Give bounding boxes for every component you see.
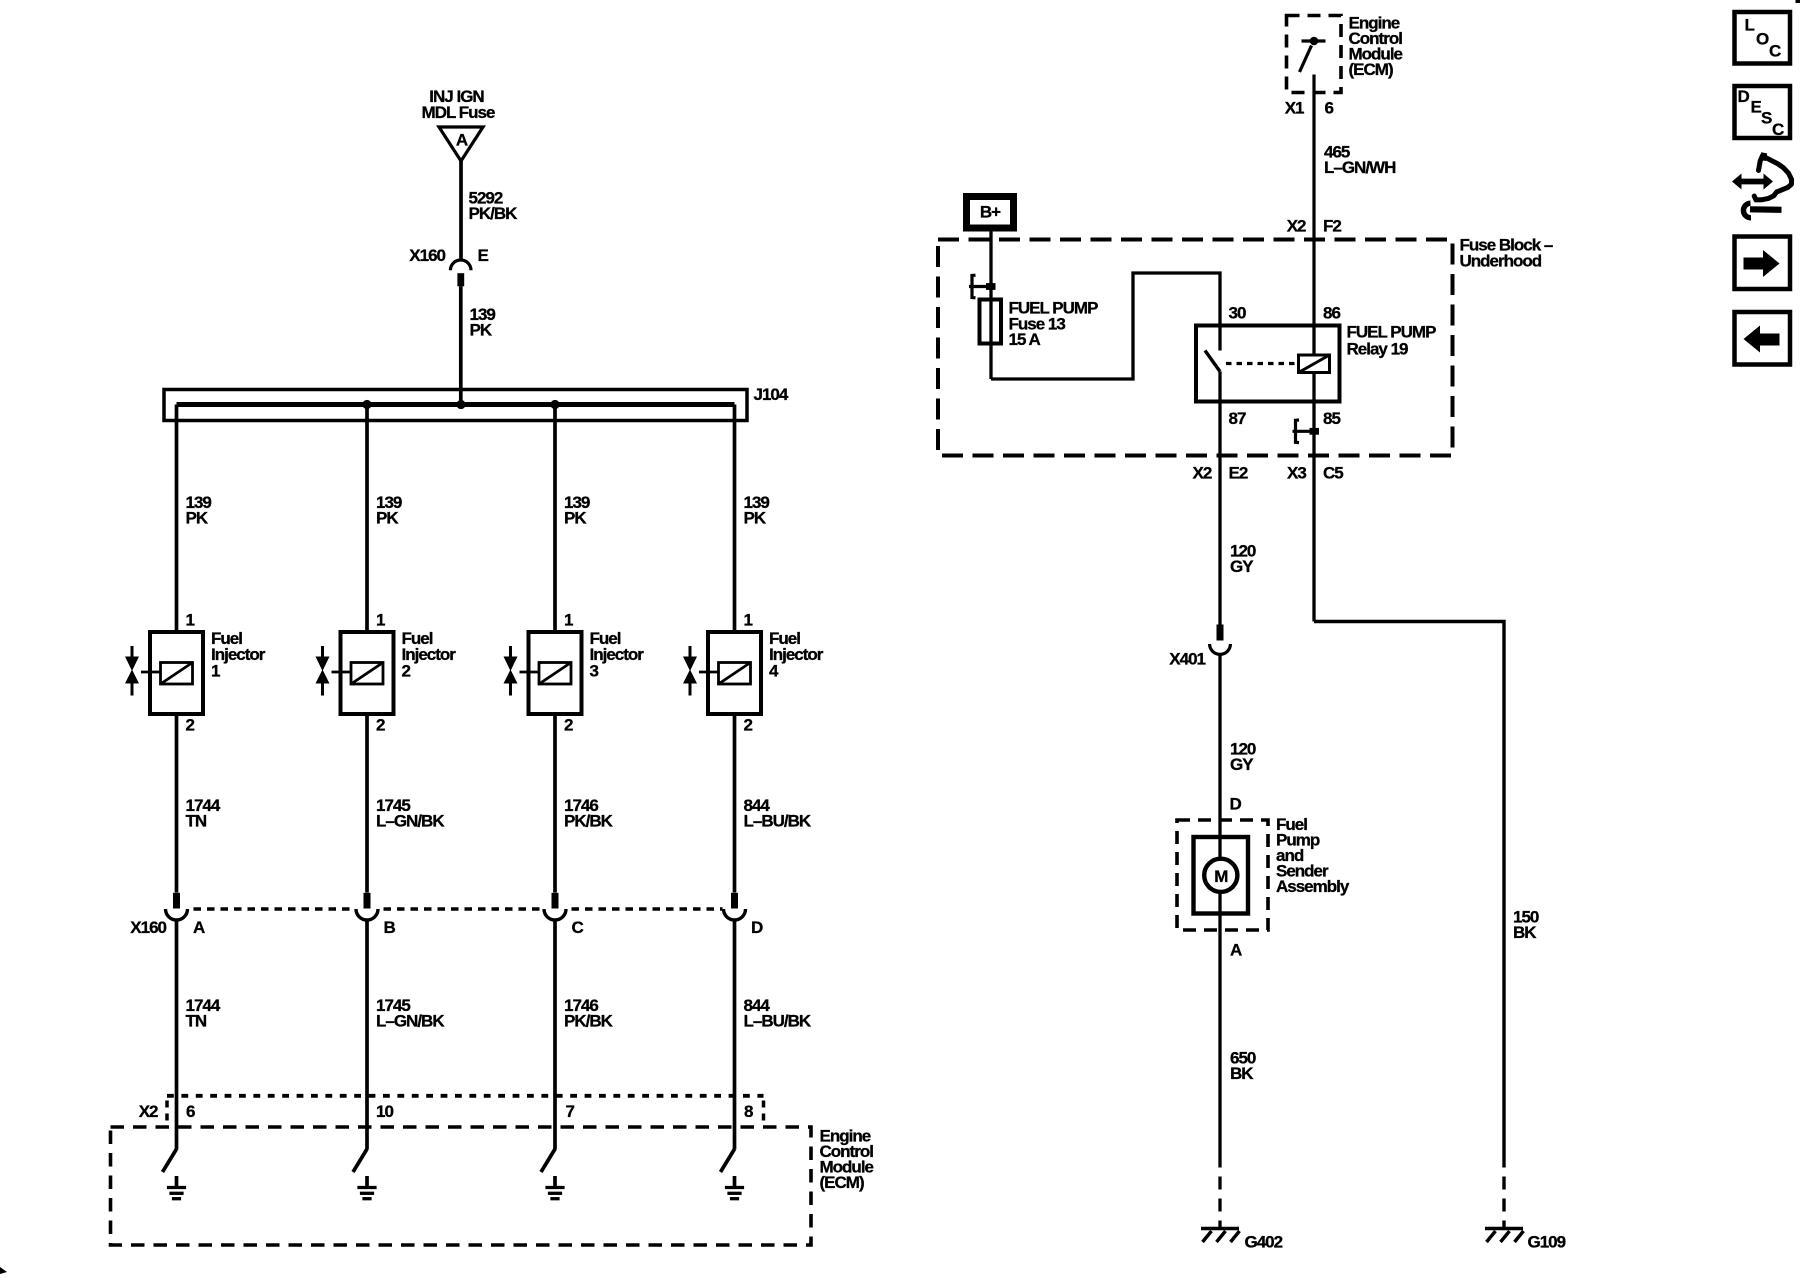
- svg-text:8: 8: [744, 1102, 753, 1121]
- svg-text:PK: PK: [376, 509, 399, 528]
- svg-text:Assembly: Assembly: [1276, 877, 1350, 896]
- svg-text:3: 3: [590, 662, 599, 681]
- svg-text:1: 1: [186, 611, 195, 630]
- svg-text:B+: B+: [980, 203, 1001, 222]
- svg-text:87: 87: [1229, 409, 1246, 428]
- svg-text:PK/BK: PK/BK: [564, 812, 614, 831]
- svg-text:6: 6: [1325, 99, 1334, 118]
- svg-text:86: 86: [1323, 304, 1340, 323]
- svg-text:A: A: [193, 918, 205, 937]
- svg-text:G402: G402: [1245, 1233, 1283, 1252]
- svg-text:B: B: [384, 918, 396, 937]
- svg-text:X1: X1: [1285, 99, 1304, 118]
- svg-text:E: E: [478, 246, 489, 265]
- svg-text:TN: TN: [186, 1012, 207, 1031]
- svg-text:C: C: [1772, 120, 1784, 139]
- svg-text:L–GN/BK: L–GN/BK: [376, 1012, 445, 1031]
- svg-text:S: S: [1761, 108, 1772, 127]
- svg-text:GY: GY: [1230, 557, 1254, 576]
- svg-text:MDL Fuse: MDL Fuse: [422, 103, 495, 122]
- svg-text:F2: F2: [1323, 217, 1341, 236]
- svg-text:2: 2: [744, 716, 753, 735]
- svg-text:L–BU/BK: L–BU/BK: [744, 1012, 812, 1031]
- svg-text:A: A: [456, 131, 468, 150]
- svg-text:30: 30: [1229, 304, 1246, 323]
- svg-text:X2: X2: [139, 1102, 158, 1121]
- svg-text:X2: X2: [1193, 464, 1212, 483]
- svg-text:2: 2: [402, 662, 411, 681]
- svg-text:D: D: [1738, 87, 1750, 106]
- svg-text:A: A: [1230, 941, 1242, 960]
- svg-text:X2: X2: [1287, 217, 1306, 236]
- svg-text:1: 1: [211, 662, 220, 681]
- svg-text:(ECM): (ECM): [820, 1173, 864, 1192]
- svg-text:C: C: [572, 918, 584, 937]
- svg-text:TN: TN: [186, 812, 207, 831]
- svg-text:X401: X401: [1169, 650, 1205, 669]
- svg-text:1: 1: [564, 611, 573, 630]
- svg-text:PK: PK: [564, 509, 587, 528]
- svg-text:X3: X3: [1287, 464, 1306, 483]
- svg-text:E: E: [1751, 98, 1762, 117]
- svg-text:X160: X160: [130, 918, 166, 937]
- svg-text:7: 7: [566, 1102, 575, 1121]
- svg-text:G109: G109: [1528, 1233, 1566, 1252]
- svg-text:PK: PK: [186, 509, 209, 528]
- svg-text:2: 2: [564, 716, 573, 735]
- svg-text:Relay 19: Relay 19: [1347, 340, 1409, 359]
- svg-text:C: C: [1769, 42, 1781, 61]
- svg-text:2: 2: [376, 716, 385, 735]
- svg-text:15 A: 15 A: [1009, 330, 1041, 349]
- svg-text:PK: PK: [744, 509, 767, 528]
- svg-text:L–BU/BK: L–BU/BK: [744, 812, 812, 831]
- svg-text:X160: X160: [409, 246, 445, 265]
- svg-text:J104: J104: [754, 385, 789, 404]
- svg-text:PK/BK: PK/BK: [564, 1012, 614, 1031]
- svg-text:Underhood: Underhood: [1460, 252, 1542, 271]
- svg-text:1: 1: [376, 611, 385, 630]
- svg-text:L: L: [1745, 16, 1755, 35]
- svg-text:85: 85: [1323, 409, 1340, 428]
- svg-text:D: D: [1230, 795, 1242, 814]
- svg-text:C5: C5: [1323, 464, 1343, 483]
- svg-text:6: 6: [186, 1102, 195, 1121]
- svg-text:GY: GY: [1230, 755, 1254, 774]
- svg-text:PK/BK: PK/BK: [469, 204, 519, 223]
- svg-text:2: 2: [186, 716, 195, 735]
- svg-text:L–GN/WH: L–GN/WH: [1324, 158, 1396, 177]
- svg-text:(ECM): (ECM): [1349, 60, 1393, 79]
- svg-text:1: 1: [744, 611, 753, 630]
- svg-text:D: D: [751, 918, 763, 937]
- svg-text:L–GN/BK: L–GN/BK: [376, 812, 445, 831]
- svg-text:BK: BK: [1230, 1064, 1254, 1083]
- svg-text:BK: BK: [1513, 923, 1537, 942]
- svg-text:E2: E2: [1229, 464, 1248, 483]
- svg-text:O: O: [1756, 30, 1769, 49]
- svg-text:PK: PK: [470, 321, 493, 340]
- svg-text:10: 10: [376, 1102, 393, 1121]
- svg-text:M: M: [1214, 867, 1228, 886]
